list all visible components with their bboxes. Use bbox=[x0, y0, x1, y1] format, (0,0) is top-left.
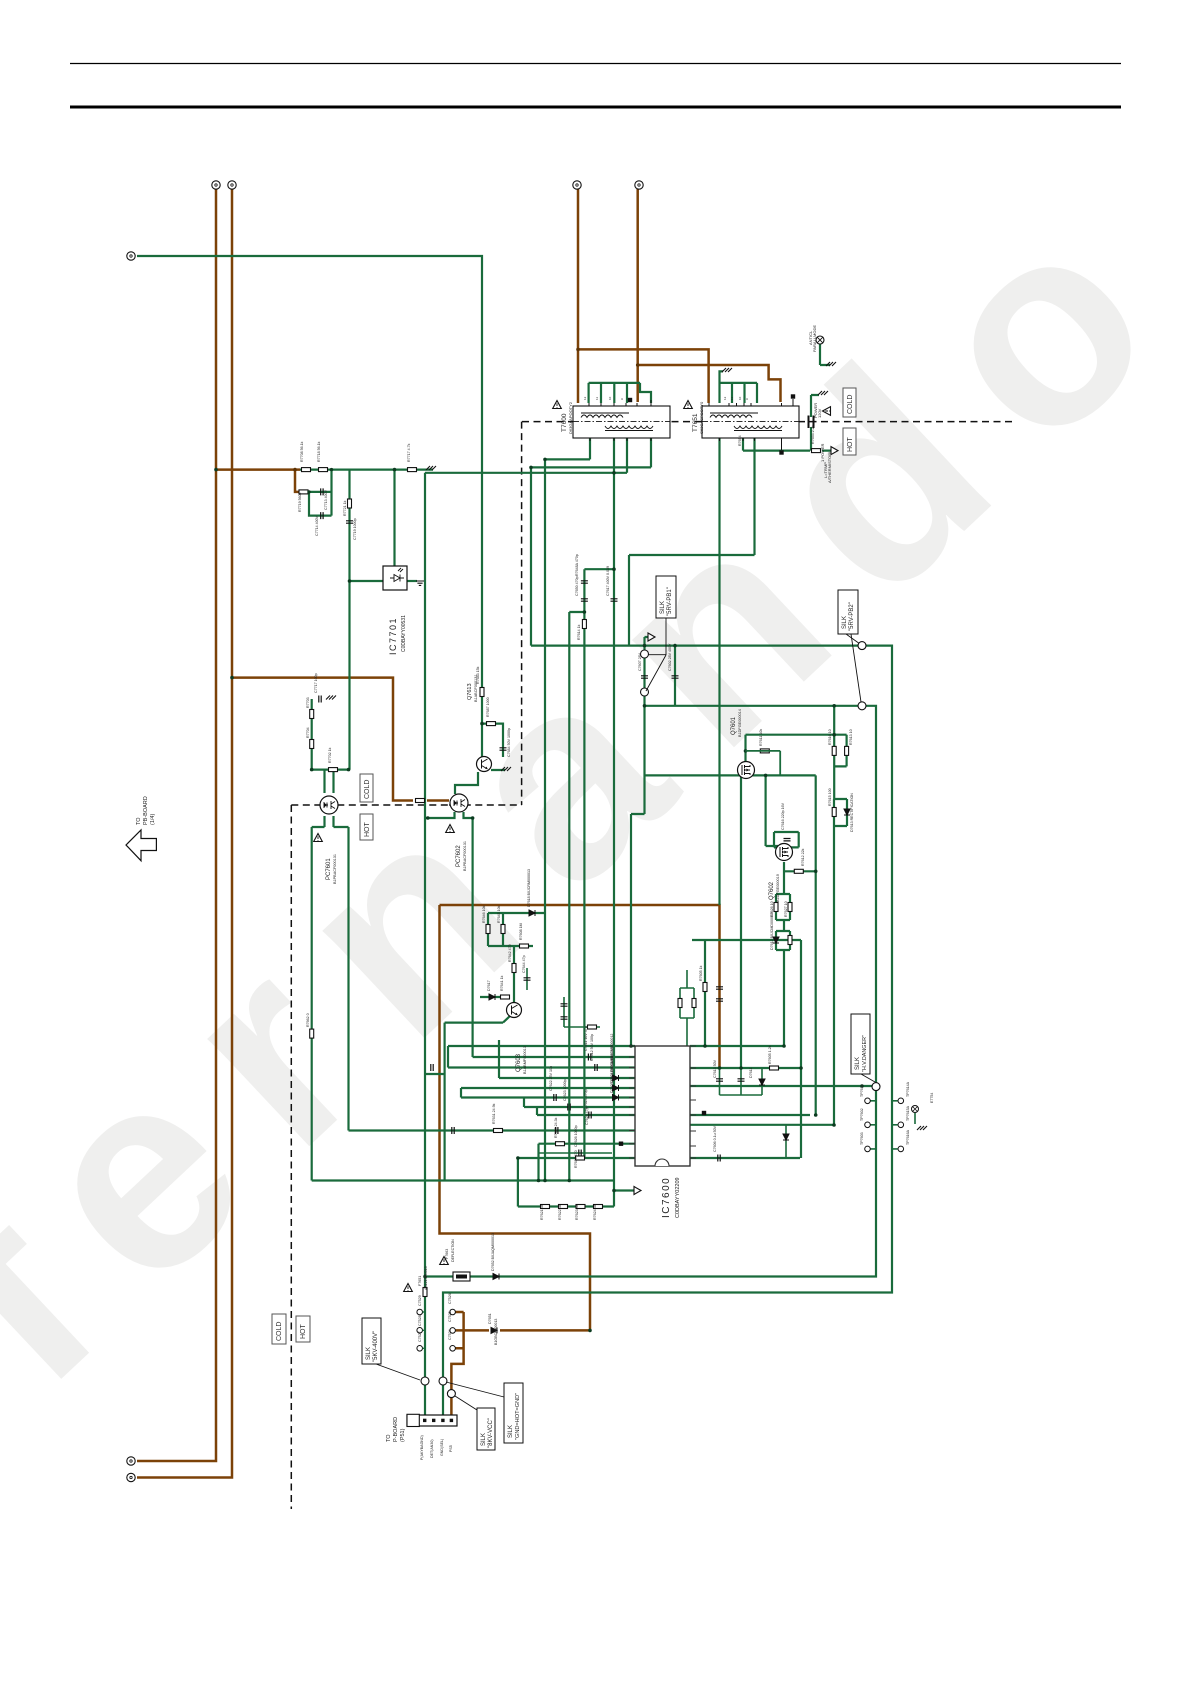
svg-text:HOT: HOT bbox=[364, 822, 371, 838]
svg-text:R7641 1k: R7641 1k bbox=[500, 975, 504, 991]
wire long vertical C T7600 pin4 bbox=[613, 438, 615, 1207]
svg-text:D7605 MA111 B0JA3M: D7605 MA111 B0JA3M bbox=[610, 1056, 614, 1093]
svg-text:B1DFGE000019: B1DFGE000019 bbox=[776, 874, 780, 902]
svg-text:SILK: SILK bbox=[366, 1347, 372, 1360]
terminal J2 bbox=[228, 181, 236, 189]
resistor R7626 bbox=[774, 903, 778, 912]
svg-text:R7717 4.7k: R7717 4.7k bbox=[407, 443, 411, 462]
svg-text:D7611: D7611 bbox=[749, 1068, 753, 1078]
wire hot dc bus lower bbox=[440, 905, 591, 1330]
opto PC7601 bbox=[320, 796, 338, 814]
SILK GND-HOT box bbox=[504, 1383, 523, 1443]
wire T7651 sec pin1 bbox=[718, 438, 720, 905]
capacitor C7714 bbox=[321, 512, 323, 519]
svg-text:IC7600: IC7600 bbox=[661, 1177, 672, 1218]
capacitor C7641 bbox=[561, 1004, 568, 1006]
svg-text:R7719 560k: R7719 560k bbox=[298, 492, 302, 512]
wire R7605 branch bbox=[704, 940, 706, 1046]
diode D7611 bbox=[759, 1079, 765, 1085]
svg-text:C7622 25V 10u: C7622 25V 10u bbox=[549, 1066, 553, 1091]
resistor R7719 bbox=[299, 490, 308, 494]
IC7701 box bbox=[383, 566, 407, 590]
SILK 5RV-PB1 box bbox=[656, 576, 676, 618]
circle silk GND bbox=[439, 1377, 447, 1385]
svg-text:R7615 100: R7615 100 bbox=[828, 788, 832, 806]
HOT box mid bbox=[360, 814, 373, 840]
warning triangle PC7602 bbox=[446, 825, 455, 833]
hot/cold dashed vertical bottom left bbox=[290, 805, 292, 1509]
svg-text:R7622 3k: R7622 3k bbox=[558, 1204, 562, 1220]
svg-text:PB-BOARD: PB-BOARD bbox=[143, 796, 149, 825]
wire aux vertical 741 bbox=[740, 775, 742, 1068]
wire D7614 branch bbox=[785, 1125, 787, 1158]
wire Q7601 gate bbox=[645, 774, 816, 776]
resistor R7662 bbox=[310, 1029, 314, 1038]
warning triangle fuse bbox=[440, 1257, 449, 1265]
capacitor C7607 bbox=[641, 676, 648, 678]
wire IC7701 left pin bbox=[350, 580, 384, 582]
leader 5RV-PB1 bbox=[665, 618, 667, 655]
svg-text:TP7603: TP7603 bbox=[860, 1132, 864, 1145]
wire wedge vertical bbox=[645, 637, 650, 774]
wire IC left pin row11 bbox=[518, 1157, 635, 1159]
test point column left bbox=[417, 1309, 423, 1315]
wire long vertical H bbox=[472, 818, 474, 1057]
capacitor C7611 bbox=[588, 1054, 590, 1061]
wire Q7613 to PC7602 bbox=[455, 772, 478, 794]
arrow net AC out bbox=[831, 447, 838, 455]
resistor R7612 bbox=[794, 869, 803, 873]
terminal bottom2 bbox=[127, 1473, 135, 1481]
svg-text:C63GACPOOTY0: C63GACPOOTY0 bbox=[699, 401, 704, 434]
resistor R7718 bbox=[319, 468, 328, 472]
terminal J1 bbox=[212, 181, 220, 189]
svg-text:R7683 15k: R7683 15k bbox=[476, 666, 480, 684]
svg-text:1 POWER: 1 POWER bbox=[820, 443, 825, 462]
wire Q7603 emitter bbox=[445, 1016, 510, 1023]
svg-text:P-BOARD: P-BOARD bbox=[393, 1417, 399, 1442]
svg-text:E7754: E7754 bbox=[930, 1093, 934, 1103]
wire IC7701 top feed bbox=[393, 470, 395, 566]
svg-text:COLD: COLD bbox=[276, 1322, 283, 1341]
svg-text:R7627 10: R7627 10 bbox=[784, 901, 788, 917]
svg-text:TO: TO bbox=[386, 1434, 392, 1442]
svg-text:C7526: C7526 bbox=[448, 1293, 452, 1304]
wire to main bus left bbox=[628, 555, 630, 646]
transistor Q7613 bbox=[477, 757, 492, 772]
top rule thin bbox=[70, 63, 1121, 65]
svg-text:Q7603: Q7603 bbox=[516, 1053, 522, 1072]
resistor R7641 bbox=[501, 995, 510, 999]
svg-text:SILK: SILK bbox=[481, 1433, 487, 1446]
resistor row R7623 bbox=[576, 1205, 585, 1209]
HOT box top bbox=[843, 428, 856, 455]
pin marker square T7651 bottom bbox=[779, 450, 783, 454]
mosfet Q7602 bbox=[776, 844, 793, 861]
wire Q7603 mid bbox=[480, 946, 514, 1002]
svg-text:COLD: COLD bbox=[364, 780, 371, 799]
terminal bottom1 bbox=[127, 1457, 135, 1465]
resistor R7613 bbox=[845, 746, 849, 755]
resistor R7647 bbox=[678, 999, 682, 1008]
svg-text:HOT: HOT bbox=[847, 437, 854, 453]
svg-text:R7621 3k: R7621 3k bbox=[540, 1204, 544, 1220]
capacitor C7650 bbox=[581, 599, 588, 601]
wire PC7602 bottom pins bbox=[425, 812, 473, 818]
wire main bus PB2 bbox=[425, 706, 876, 1277]
svg-text:TP7615A: TP7615A bbox=[906, 1105, 910, 1121]
wire bottom bus bbox=[312, 1179, 614, 1181]
svg-text:R7611 10k: R7611 10k bbox=[759, 729, 763, 746]
svg-text:D7652 B0JAQM000013: D7652 B0JAQM000013 bbox=[491, 1233, 495, 1271]
warning triangle T7651 bbox=[684, 401, 693, 409]
svg-text:R7605 1.2k: R7605 1.2k bbox=[768, 1045, 772, 1064]
svg-text:DEFLECTION: DEFLECTION bbox=[451, 1239, 455, 1262]
svg-text:C7623 1000p: C7623 1000p bbox=[563, 1079, 567, 1101]
green wires bbox=[137, 256, 915, 1416]
diode D7614 bbox=[783, 1134, 789, 1140]
ground chassis C7717 bbox=[326, 696, 336, 700]
resistor R7717 bbox=[408, 468, 417, 472]
capacitor C7623 bbox=[568, 1104, 570, 1111]
wire T7651 aux pin bbox=[743, 438, 831, 451]
arrow net wedge bbox=[648, 633, 655, 641]
svg-text:R7718 56.1k: R7718 56.1k bbox=[317, 441, 321, 462]
pin marker square IC7600 b bbox=[619, 1142, 623, 1146]
svg-text:R7646 10k: R7646 10k bbox=[482, 905, 486, 923]
wire IC left pin row2 bbox=[448, 1046, 635, 1068]
resistor row R7622 bbox=[559, 1205, 568, 1209]
wire Q7601 drain bbox=[744, 735, 746, 762]
svg-text:R7645 10k: R7645 10k bbox=[497, 905, 501, 923]
wire vertical to bottom bus bbox=[537, 1144, 539, 1181]
ground chassis earth tp bbox=[917, 1126, 927, 1130]
svg-text:R7633 24.3k: R7633 24.3k bbox=[554, 1117, 558, 1138]
SILK 5RV-PB2 box bbox=[838, 590, 858, 634]
wire Q7601 feed R pair bbox=[746, 706, 847, 799]
SILK 5KV-400V box bbox=[362, 1318, 381, 1364]
svg-text:R7702 1k: R7702 1k bbox=[328, 747, 332, 763]
svg-text:R7708 56.1k: R7708 56.1k bbox=[300, 441, 304, 462]
wire IC left pin rows bbox=[448, 1045, 635, 1047]
wire PC7601 pins top bbox=[325, 770, 334, 793]
svg-text:B1PBACF000131: B1PBACF000131 bbox=[333, 854, 337, 884]
wire R pair above IC bbox=[680, 970, 694, 1046]
capacitor C7713 bbox=[321, 488, 323, 495]
wire IC left pin row5 bbox=[461, 1087, 635, 1089]
stub R7611 bbox=[746, 751, 781, 776]
ground chassis Q7613 bbox=[501, 767, 511, 771]
rules bbox=[70, 64, 1121, 108]
resistor R7704 bbox=[310, 740, 314, 749]
wire T7600 primary top bus bbox=[589, 383, 651, 403]
capacitor C7717 bbox=[319, 696, 321, 703]
wire AC line 2 left vertical bbox=[137, 189, 232, 1478]
wire long vertical K bbox=[444, 1023, 446, 1181]
hot/cold dashed horizontal through optocouplers bbox=[291, 804, 521, 806]
COLD box bottom bbox=[272, 1314, 286, 1344]
antenna terminal circle bbox=[816, 336, 824, 344]
svg-text:D7612 B0JCMD000019: D7612 B0JCMD000019 bbox=[770, 912, 774, 950]
wire AC to T7600 primary bbox=[577, 189, 580, 403]
wire AC line 1 left vertical bbox=[137, 189, 216, 1461]
svg-text:C7613 50V: C7613 50V bbox=[713, 1059, 717, 1078]
diode D7651 bbox=[491, 1327, 497, 1333]
transistor Q7603 bbox=[507, 1003, 522, 1018]
svg-text:10: 10 bbox=[608, 396, 612, 400]
wire IC left pin row6 bbox=[461, 1088, 635, 1098]
resistor R7604 bbox=[770, 1066, 779, 1070]
capacitor C7616 bbox=[784, 839, 791, 841]
warning triangle R7653 bbox=[404, 1284, 413, 1292]
svg-text:SILK: SILK bbox=[508, 1425, 514, 1438]
wire T7651 primary top bus bbox=[720, 371, 758, 403]
svg-text:B1PBACF000131: B1PBACF000131 bbox=[463, 841, 467, 871]
svg-text:C7616 220p 16V: C7616 220p 16V bbox=[781, 802, 785, 830]
diode D7617 bbox=[489, 994, 495, 1000]
wire long vertical J bbox=[630, 814, 632, 1046]
circle PB2a bbox=[858, 642, 866, 650]
svg-text:R7612 22k: R7612 22k bbox=[801, 848, 805, 866]
wire hot dc after diode to connector bbox=[451, 1312, 489, 1417]
svg-text:PC7602: PC7602 bbox=[456, 845, 462, 867]
earth terminal symbol bbox=[912, 1106, 919, 1113]
COLD box top bbox=[843, 388, 856, 417]
svg-text:D7618 B0JCRM000013: D7618 B0JCRM000013 bbox=[527, 869, 531, 907]
test point column right bbox=[450, 1309, 456, 1315]
svg-text:PC7601: PC7601 bbox=[326, 858, 332, 880]
svg-text:R7648A 470p: R7648A 470p bbox=[575, 554, 579, 576]
wire long vertical E bbox=[584, 569, 614, 1158]
svg-text:B1ABMF000013: B1ABMF000013 bbox=[523, 1046, 527, 1074]
svg-text:C7606 0.1u 50V: C7606 0.1u 50V bbox=[713, 1125, 717, 1152]
svg-text:C7525: C7525 bbox=[448, 1311, 452, 1322]
capacitor C7619B bbox=[716, 999, 723, 1001]
svg-text:C7529: C7529 bbox=[418, 1295, 422, 1306]
svg-text:A/THERMISTOR!: A/THERMISTOR! bbox=[827, 452, 832, 483]
svg-text:C7527: C7527 bbox=[418, 1331, 422, 1342]
wire T7600 sec pin1 bbox=[545, 438, 590, 459]
wire hot dc bus upper bbox=[440, 905, 720, 1068]
ground chassis antenna bbox=[826, 362, 836, 366]
resistor R7634 bbox=[576, 1156, 585, 1160]
svg-text:GND(SEL): GND(SEL) bbox=[440, 1439, 444, 1456]
wire arrow stub bbox=[614, 1189, 635, 1191]
opto PC7602 bbox=[450, 794, 468, 812]
resistor R7631 bbox=[494, 1129, 503, 1133]
wire bottom resistor row bbox=[518, 1158, 614, 1207]
wedge circle bottom bbox=[641, 688, 649, 696]
wire IC pin right 3 bbox=[690, 1085, 876, 1087]
warning triangle plug bbox=[823, 407, 831, 416]
svg-text:IC7701: IC7701 bbox=[388, 617, 398, 655]
diode D7603 bbox=[613, 1075, 619, 1081]
wire earth terminal horizontal bbox=[137, 256, 482, 687]
capacitor C7610 bbox=[452, 1127, 454, 1134]
resistor R7688 bbox=[416, 799, 425, 803]
wire IC left pin row3 bbox=[448, 1066, 635, 1068]
capacitor C7626 bbox=[579, 1150, 581, 1157]
svg-text:C7717 100p: C7717 100p bbox=[314, 673, 318, 693]
circle PB2b bbox=[858, 702, 866, 710]
leader 5RV-PB2 b bbox=[851, 634, 861, 702]
warning triangle PC7601 bbox=[314, 834, 323, 842]
svg-text:R7654: R7654 bbox=[738, 435, 742, 446]
wire IC left pin row10 bbox=[539, 1143, 636, 1145]
resistor R7646 bbox=[486, 925, 490, 934]
svg-text:C7611 16V 47u: C7611 16V 47u bbox=[584, 1026, 588, 1051]
T7651 transformer bbox=[702, 399, 799, 450]
resistor R7653 bbox=[423, 1288, 427, 1297]
warning triangle T7600 bbox=[553, 401, 562, 409]
capacitor C7625 bbox=[556, 1127, 558, 1134]
svg-text:10: 10 bbox=[738, 396, 742, 400]
svg-text:R7721 1k: R7721 1k bbox=[343, 500, 347, 516]
svg-text:R7608 1M: R7608 1M bbox=[519, 923, 523, 940]
brown wires bbox=[137, 189, 781, 1478]
svg-text:T7600: T7600 bbox=[561, 413, 568, 432]
wire gate branch down bbox=[631, 774, 645, 814]
capacitor C7602 bbox=[672, 676, 679, 678]
svg-text:R7687 1000: R7687 1000 bbox=[486, 697, 490, 717]
svg-text:B1GBCF000013: B1GBCF000013 bbox=[494, 1319, 498, 1345]
svg-text:"8KV-VCC": "8KV-VCC" bbox=[488, 1418, 494, 1448]
pin marker square T7600 bbox=[628, 398, 632, 402]
wire test point stubs right bbox=[892, 1101, 915, 1149]
wire long vertical G bbox=[347, 827, 349, 1131]
svg-text:P(AKYBAGND): P(AKYBAGND) bbox=[420, 1435, 424, 1460]
resistor row R7624 bbox=[594, 1205, 603, 1209]
resistor R7703 bbox=[310, 710, 314, 719]
svg-text:C7602 28V 400V: C7602 28V 400V bbox=[668, 643, 672, 671]
wire brown branch2 bbox=[638, 365, 781, 402]
svg-text:"5RV-PB1": "5RV-PB1" bbox=[667, 587, 673, 616]
svg-text:C7612 50V 100p: C7612 50V 100p bbox=[590, 1034, 594, 1061]
svg-text:(1/4): (1/4) bbox=[150, 814, 156, 825]
svg-text:R7634 470: R7634 470 bbox=[574, 1150, 578, 1168]
resistor R7648 bbox=[692, 999, 696, 1008]
dash across optos bbox=[320, 804, 470, 806]
capacitor C7624 bbox=[589, 1112, 591, 1119]
resistor R7608 bbox=[520, 944, 529, 948]
svg-text:C0DBAYY02209: C0DBAYY02209 bbox=[675, 1177, 681, 1218]
wire AC to T7600 pin5 bbox=[636, 189, 639, 402]
svg-text:C7714 400V: C7714 400V bbox=[315, 515, 319, 536]
leader 8KV-VCC bbox=[455, 1396, 477, 1410]
svg-text:D7651: D7651 bbox=[488, 1313, 492, 1324]
wire power plug net bbox=[811, 395, 819, 451]
wire R7615 D7613 box bbox=[834, 799, 847, 826]
SILK 8KV-VCC box bbox=[477, 1408, 495, 1450]
capacitor C7613 bbox=[716, 1079, 723, 1081]
svg-text:"5RV-PB2": "5RV-PB2" bbox=[849, 602, 855, 631]
test point circles left column bbox=[865, 1098, 871, 1104]
resistor R7643 bbox=[588, 1025, 597, 1029]
diode D7605 bbox=[613, 1095, 619, 1101]
wire main bus PB1 bbox=[443, 646, 892, 1416]
svg-text:TP7616A: TP7616A bbox=[906, 1129, 910, 1145]
resistor R7683 bbox=[480, 688, 484, 697]
wire IC left pin row9 bbox=[349, 1129, 636, 1131]
svg-text:R7703: R7703 bbox=[306, 697, 310, 708]
resistor R7708 bbox=[302, 468, 311, 472]
svg-text:R7624 3k: R7624 3k bbox=[593, 1204, 597, 1220]
svg-text:R7642 470: R7642 470 bbox=[508, 944, 512, 962]
svg-text:R7623 3k: R7623 3k bbox=[575, 1204, 579, 1220]
diode D7612 bbox=[773, 937, 779, 943]
svg-text:C7624 470p: C7624 470p bbox=[584, 1089, 588, 1109]
wire Q7613 collector bbox=[482, 724, 505, 770]
wire antenna cap bbox=[820, 344, 830, 365]
wire Q7602 source bbox=[784, 862, 816, 894]
wire resistor feed PC7602 bbox=[427, 799, 449, 802]
wire Q7603 top box bbox=[488, 913, 545, 946]
wire long vertical B bbox=[424, 473, 426, 1416]
svg-text:D63GAAPOOTY2: D63GAAPOOTY2 bbox=[568, 401, 573, 434]
ground chassis T7651 hook bbox=[722, 368, 732, 372]
svg-text:PS5: PS5 bbox=[449, 1445, 453, 1452]
wire IC pin right 4 bbox=[690, 1114, 810, 1116]
wire PC7601 pins bottom bbox=[312, 816, 349, 827]
wire IC pin right 1 bbox=[690, 1045, 784, 1047]
fuse F7663 bbox=[453, 1272, 470, 1281]
diode D7652 bbox=[493, 1274, 499, 1280]
wedge diagonal bbox=[646, 655, 666, 691]
svg-text:DET(AN30): DET(AN30) bbox=[430, 1439, 434, 1458]
terminal J3 bbox=[573, 181, 581, 189]
wire T7600 sec pin2 bbox=[425, 438, 627, 473]
wire snubber pair bbox=[776, 894, 790, 931]
wire vertical to main bus bbox=[530, 467, 532, 645]
wire long vertical I bbox=[833, 826, 835, 1125]
capacitor C7719 bbox=[346, 521, 353, 523]
leader 5KV-400V bbox=[376, 1364, 420, 1380]
svg-text:B1DFGE000014: B1DFGE000014 bbox=[738, 709, 742, 737]
svg-text:11: 11 bbox=[595, 397, 599, 400]
svg-text:TP7614A: TP7614A bbox=[906, 1081, 910, 1097]
junction R7719 bbox=[307, 490, 310, 493]
svg-text:HOT: HOT bbox=[300, 1324, 307, 1340]
svg-text:Q7613: Q7613 bbox=[467, 683, 473, 700]
diode D7618 bbox=[529, 910, 535, 916]
wire IC left pin row8 bbox=[537, 1107, 635, 1115]
svg-text:12: 12 bbox=[723, 396, 727, 400]
wire T7651 sec pin2 bbox=[629, 438, 755, 555]
wire long vertical D bbox=[569, 612, 584, 1181]
wire IC7701 right pin to ground bbox=[407, 580, 417, 582]
connector P51 bbox=[407, 1414, 457, 1426]
svg-text:Q7602: Q7602 bbox=[769, 881, 775, 900]
svg-text:C7524: C7524 bbox=[448, 1329, 452, 1340]
capacitor C7644 bbox=[524, 978, 531, 980]
svg-text:(P51): (P51) bbox=[400, 1428, 406, 1442]
svg-text:TP7602: TP7602 bbox=[860, 1108, 864, 1121]
svg-text:PARALLMODE: PARALLMODE bbox=[812, 325, 817, 352]
wire R7612 branch bbox=[815, 775, 817, 1115]
resistor R7687 bbox=[487, 722, 496, 726]
svg-text:D7617: D7617 bbox=[487, 980, 491, 991]
wire snubber comb bbox=[720, 1068, 763, 1095]
wire tp stubs left bbox=[423, 1312, 426, 1348]
resistor thermistor bbox=[812, 449, 821, 453]
resistor R7628 bbox=[788, 936, 792, 945]
svg-text:AB1219FN013: AB1219FN013 bbox=[424, 1266, 428, 1290]
pin marker square T7651 top bbox=[791, 394, 795, 398]
wire snubber cluster left bbox=[309, 470, 332, 516]
arrow net bottom bbox=[634, 1187, 641, 1195]
wire IC pin right 5 bbox=[690, 1124, 834, 1126]
HOT box bottom bbox=[296, 1316, 310, 1342]
